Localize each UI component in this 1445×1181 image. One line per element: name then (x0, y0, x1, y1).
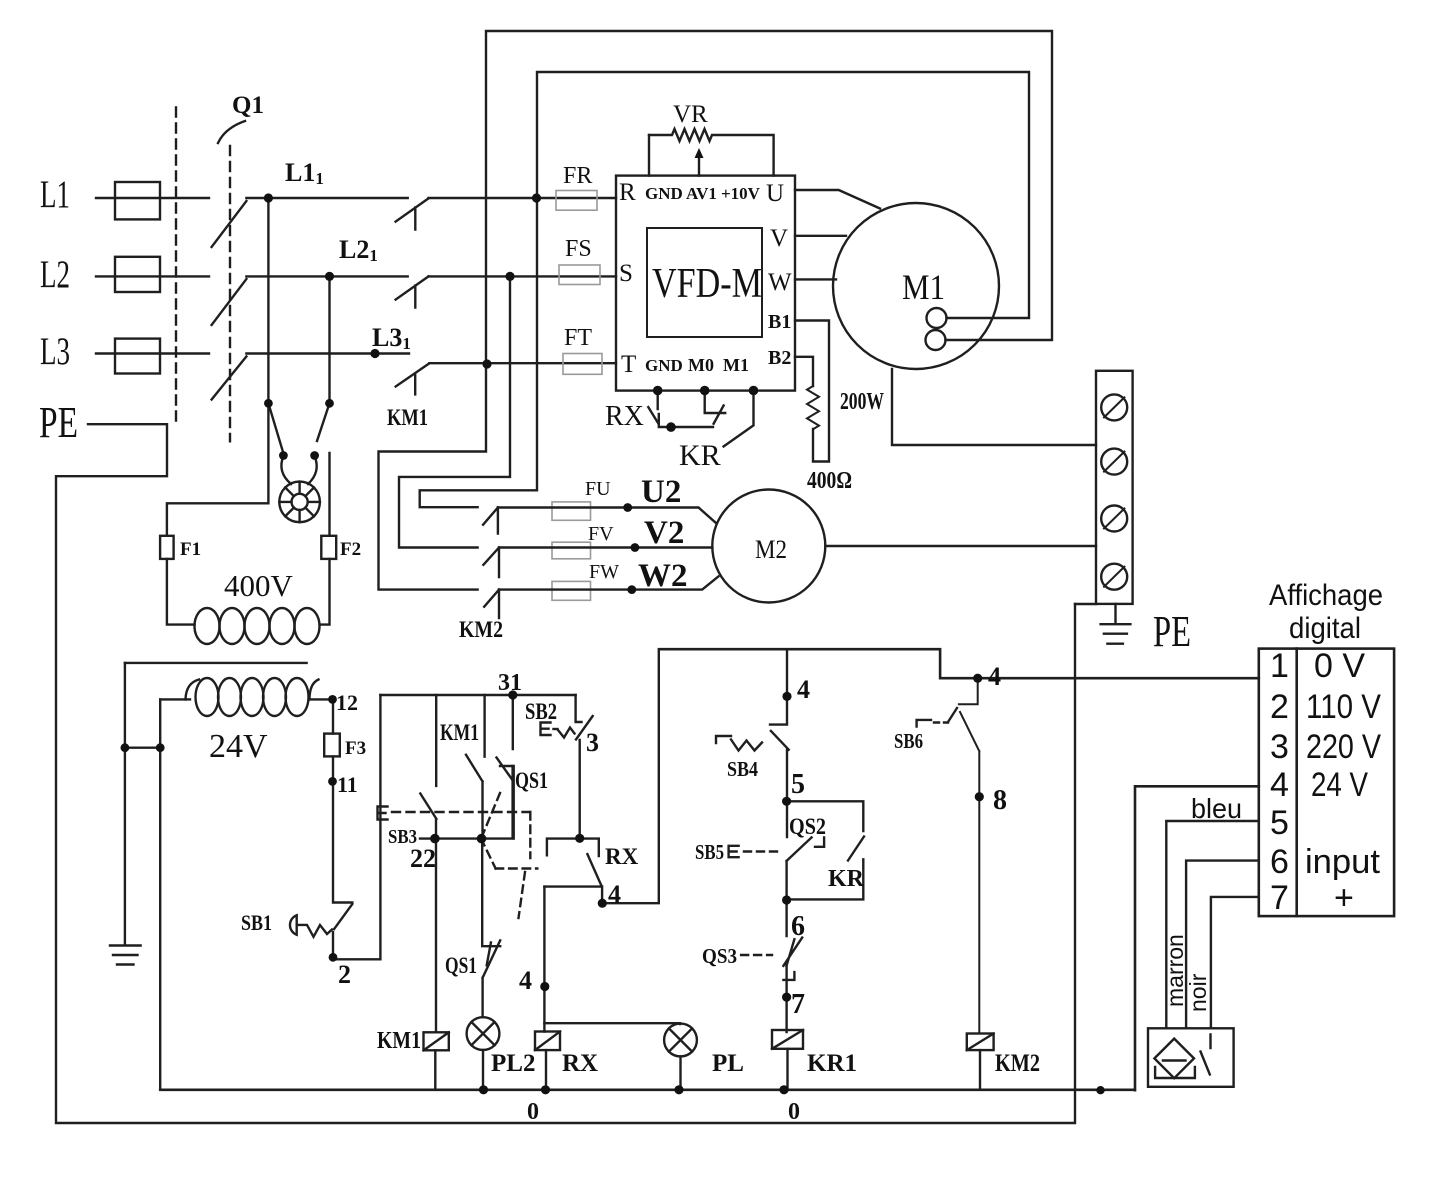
svg-text:7: 7 (791, 989, 805, 1020)
svg-text:1: 1 (1270, 647, 1289, 685)
svg-text:0: 0 (527, 1099, 539, 1125)
svg-text:31: 31 (498, 670, 522, 696)
svg-text:QS1: QS1 (445, 953, 477, 978)
svg-text:F1: F1 (180, 539, 201, 560)
svg-text:2: 2 (338, 960, 351, 989)
svg-text:RX: RX (605, 401, 644, 432)
svg-text:VR: VR (673, 101, 708, 128)
svg-text:PE: PE (39, 398, 78, 447)
svg-text:4: 4 (519, 966, 532, 995)
svg-text:KR1: KR1 (807, 1050, 857, 1077)
svg-text:F3: F3 (345, 738, 366, 759)
svg-text:0 V: 0 V (1314, 647, 1365, 685)
svg-text:FT: FT (564, 325, 592, 351)
svg-text:W2: W2 (638, 558, 688, 594)
svg-text:T: T (621, 351, 636, 378)
svg-text:4: 4 (988, 662, 1001, 691)
svg-text:+: + (1334, 879, 1354, 917)
svg-text:KM1: KM1 (387, 405, 428, 430)
svg-text:F2: F2 (340, 539, 361, 560)
svg-text:KR: KR (828, 866, 865, 892)
svg-text:SB2: SB2 (525, 699, 557, 724)
svg-text:M1: M1 (902, 267, 945, 307)
svg-text:220 V: 220 V (1306, 728, 1381, 766)
svg-text:bleu: bleu (1191, 793, 1242, 824)
svg-text:L2: L2 (40, 253, 70, 296)
svg-text:input: input (1305, 843, 1381, 881)
svg-text:4: 4 (797, 675, 810, 704)
svg-text:W: W (768, 269, 792, 296)
svg-text:3: 3 (586, 728, 599, 757)
svg-text:SB5: SB5 (695, 840, 724, 864)
svg-text:FS: FS (565, 236, 592, 262)
svg-text:KR: KR (679, 439, 721, 472)
svg-text:U2: U2 (641, 474, 681, 510)
svg-text:SB1: SB1 (241, 910, 272, 935)
svg-text:V: V (770, 225, 788, 252)
svg-text:digital: digital (1289, 612, 1361, 645)
svg-text:V2: V2 (644, 515, 684, 551)
svg-text:3: 3 (1270, 728, 1289, 766)
svg-text:noir: noir (1185, 973, 1211, 1012)
svg-text:200W: 200W (840, 389, 884, 415)
svg-text:KM1: KM1 (440, 720, 479, 745)
svg-text:B1: B1 (768, 311, 791, 333)
svg-text:RX: RX (605, 844, 639, 869)
svg-text:FU: FU (585, 478, 611, 500)
svg-text:5: 5 (1270, 804, 1289, 842)
svg-text:4: 4 (608, 880, 621, 909)
svg-text:PL: PL (712, 1050, 744, 1077)
svg-text:B2: B2 (768, 347, 791, 369)
svg-text:12: 12 (336, 690, 358, 715)
svg-text:FR: FR (563, 163, 592, 189)
svg-text:24V: 24V (209, 728, 268, 765)
svg-text:SB4: SB4 (727, 757, 758, 781)
svg-text:L3: L3 (40, 330, 70, 373)
svg-text:L1: L1 (40, 173, 70, 216)
svg-text:FV: FV (588, 523, 614, 545)
svg-text:Q1: Q1 (232, 92, 264, 119)
svg-text:+10V: +10V (721, 184, 761, 203)
svg-text:VFD-M: VFD-M (652, 261, 762, 307)
svg-text:KM2: KM2 (459, 617, 503, 642)
svg-text:6: 6 (791, 911, 805, 942)
svg-text:110 V: 110 V (1306, 688, 1381, 726)
svg-text:8: 8 (993, 785, 1007, 816)
svg-text:R: R (619, 179, 636, 206)
svg-text:M1: M1 (723, 355, 749, 375)
svg-text:2: 2 (1270, 688, 1289, 726)
svg-text:PL2: PL2 (491, 1050, 535, 1077)
svg-text:11: 11 (337, 772, 358, 797)
svg-text:FW: FW (589, 561, 619, 583)
svg-text:QS2: QS2 (789, 814, 826, 839)
svg-text:Affichage: Affichage (1269, 579, 1383, 612)
svg-text:SB6: SB6 (894, 729, 923, 753)
svg-text:PE: PE (1153, 607, 1191, 656)
svg-text:AV1: AV1 (686, 184, 717, 203)
svg-text:M2: M2 (755, 535, 787, 564)
svg-text:GND: GND (645, 356, 683, 375)
svg-text:KM1: KM1 (377, 1028, 421, 1054)
svg-text:U: U (766, 180, 784, 207)
svg-text:5: 5 (791, 769, 805, 800)
svg-text:22: 22 (410, 844, 436, 873)
svg-text:6: 6 (1270, 843, 1289, 881)
svg-text:400V: 400V (224, 568, 294, 603)
svg-text:M0: M0 (688, 355, 714, 375)
svg-text:7: 7 (1270, 879, 1289, 917)
svg-text:0: 0 (788, 1099, 800, 1125)
svg-text:QS3: QS3 (702, 944, 737, 968)
svg-text:KM2: KM2 (995, 1050, 1040, 1077)
svg-text:24 V: 24 V (1311, 766, 1368, 804)
svg-text:QS1: QS1 (515, 768, 548, 793)
svg-text:400Ω: 400Ω (807, 468, 852, 494)
svg-text:4: 4 (1270, 766, 1289, 804)
svg-text:GND: GND (645, 184, 683, 203)
svg-text:S: S (619, 260, 633, 287)
svg-text:RX: RX (562, 1050, 598, 1077)
